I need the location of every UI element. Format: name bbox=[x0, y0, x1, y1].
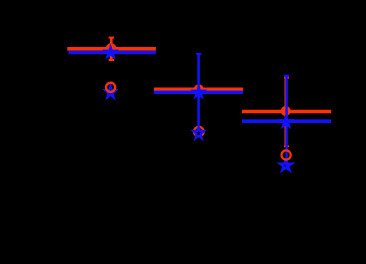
red series: cluster 3 circle marker bbox=[281, 106, 291, 116]
blue series: cluster 3 yerr bar bbox=[285, 76, 287, 168]
red series: cluster 2 xerr bar bbox=[154, 88, 243, 92]
red series: cluster 3 yerr top cap bbox=[284, 77, 289, 79]
lower pair: cluster 3 blue star marker bbox=[280, 160, 292, 171]
blue series: cluster 1 star marker bbox=[105, 47, 115, 57]
lower pair: cluster 2 blue star marker bbox=[193, 127, 204, 139]
red series: cluster 1 circle marker bbox=[106, 43, 117, 54]
red series: cluster 1 yerr top cap bbox=[109, 37, 115, 39]
red series: cluster 1 xerr bar bbox=[67, 47, 156, 51]
blue series: cluster 1 xerr bar bbox=[69, 51, 156, 54]
blue series: cluster 3 star marker bbox=[281, 117, 291, 127]
blue series: cluster 2 yerr bar bbox=[197, 54, 200, 131]
red series: cluster 3 xerr bar bbox=[242, 110, 331, 114]
red series: cluster 1 yerr bar bbox=[110, 38, 113, 60]
blue series: cluster 2 yerr top cap bbox=[196, 53, 201, 55]
blue series: cluster 2 xerr bar bbox=[154, 91, 243, 94]
red series: cluster 3 yerr bar bbox=[284, 78, 287, 147]
red series: cluster 1 yerr bottom cap bbox=[109, 59, 115, 61]
lower pair: cluster 1 red open ring bbox=[106, 83, 115, 92]
red series: cluster 2 circle marker bbox=[194, 84, 204, 94]
lower pair: cluster 2 red open ring bbox=[194, 127, 204, 137]
blue series: cluster 3 yerr top cap bbox=[284, 75, 289, 77]
blue series: cluster 3 xerr bar bbox=[242, 119, 331, 123]
blue series: cluster 2 star marker bbox=[194, 87, 204, 97]
lower pair: cluster 1 blue star marker bbox=[105, 86, 115, 97]
red series: cluster 3 yerr bottom cap bbox=[284, 145, 289, 147]
lower pair: cluster 3 red open ring bbox=[282, 150, 291, 159]
